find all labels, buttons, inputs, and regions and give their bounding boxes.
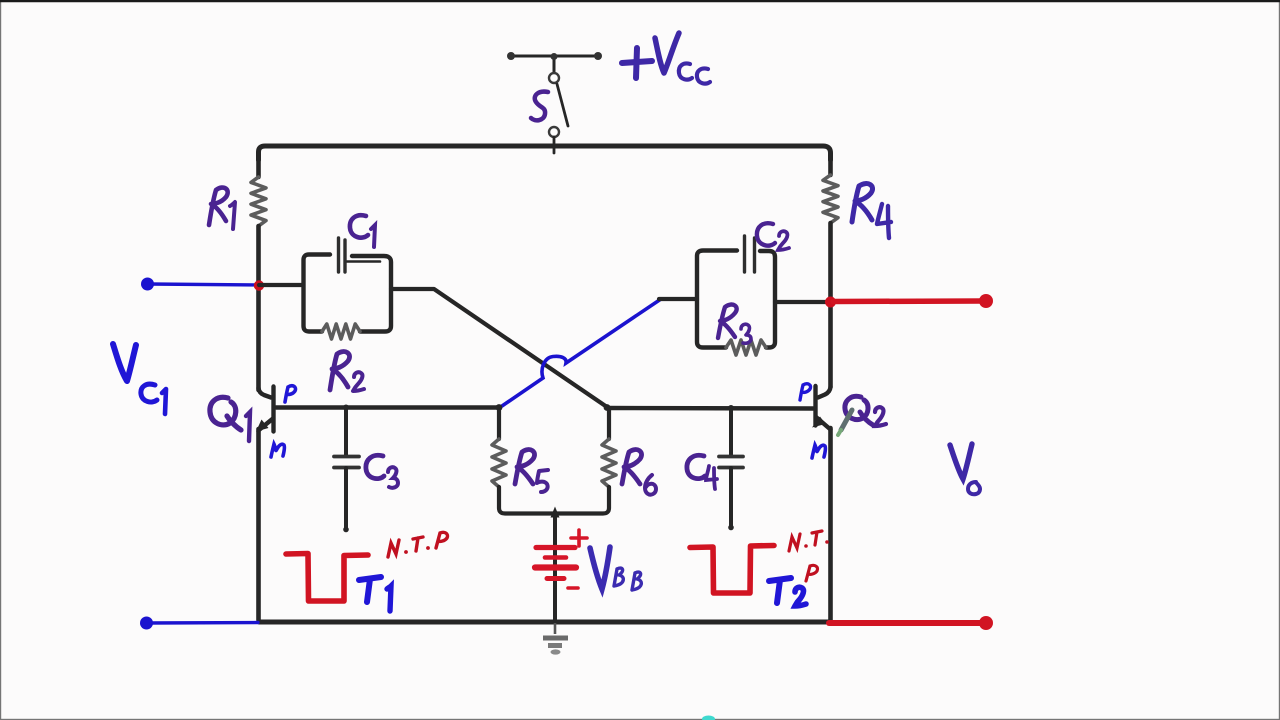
resistor R3 [726, 340, 766, 355]
pulse T2 (N.T.P) [690, 546, 774, 594]
wire: left rail mid [256, 226, 261, 390]
label N.T. right [789, 531, 829, 581]
label n right [812, 445, 825, 458]
wire: bottom rail [259, 620, 830, 625]
wire: Q2 base rail [607, 406, 813, 411]
wire: Q1 base rail [276, 405, 499, 409]
wire: red output top [833, 298, 983, 304]
wire: top rail [259, 146, 831, 160]
resistor R5 [497, 408, 501, 440]
label R6 [622, 450, 656, 495]
label Q1 [210, 397, 250, 441]
label C3 [366, 455, 398, 487]
label S [531, 92, 548, 121]
resistor R6 [607, 408, 611, 439]
wire: left rail lower [256, 429, 261, 620]
wire: left rail upper [256, 157, 261, 177]
label n left [271, 444, 284, 457]
wire: blue bottom-left stub [147, 621, 258, 625]
label Q2 [845, 396, 886, 426]
label T1 [359, 577, 391, 611]
capacitor C2 plates [745, 236, 755, 272]
node junctions [343, 405, 349, 411]
capacitor C4 [729, 408, 733, 455]
wire: right rail lower [828, 428, 833, 620]
capacitor C1 plates [339, 238, 346, 272]
wire: right rail upper [828, 157, 833, 175]
capacitor C3 [344, 408, 348, 456]
wire: red output bottom [829, 620, 983, 626]
label VBB [590, 547, 641, 590]
label R1 [209, 188, 235, 229]
resistor R2 [322, 324, 360, 339]
label P left [285, 386, 296, 402]
wire: junction to C1 box [259, 283, 303, 287]
wire: C2 box to right rail [775, 300, 829, 304]
label T2 [769, 578, 806, 606]
label R2 [330, 352, 364, 391]
capacitor C1 box [304, 255, 392, 332]
label R4 [852, 184, 891, 238]
label +Vcc [622, 33, 710, 84]
battery VBB [535, 530, 587, 588]
wire: blue input VC1 [148, 284, 257, 285]
label R5 [515, 450, 548, 492]
label Vo [950, 444, 980, 494]
cursor mark [702, 716, 715, 720]
label P right [800, 384, 811, 400]
resistor R4 [823, 175, 838, 223]
label VC1 [113, 344, 166, 414]
pulse T1 (N.T.P) [286, 554, 368, 602]
wire: C1 box to diagonal [391, 289, 607, 407]
wire: battery stub [553, 513, 557, 620]
label N.T.P left [388, 532, 448, 557]
switch S [549, 73, 568, 153]
ground [554, 623, 557, 634]
node +Vcc supply bar [511, 56, 598, 72]
node: red junction left [254, 280, 264, 290]
wire: blue to C2 box [659, 297, 697, 301]
label R3 [718, 305, 751, 344]
pointer arrow to Q2 [841, 410, 852, 430]
label C1 [350, 215, 375, 247]
node: red junction right [825, 297, 836, 308]
label C4 [687, 455, 717, 489]
wire: blue cross wire [502, 299, 661, 406]
transistor Q1 [259, 387, 274, 432]
resistor R1 [251, 177, 266, 226]
transistor Q2 [816, 386, 831, 430]
capacitor C2 box [697, 251, 775, 348]
wire: right rail mid [828, 223, 833, 387]
label C2 [757, 223, 789, 250]
